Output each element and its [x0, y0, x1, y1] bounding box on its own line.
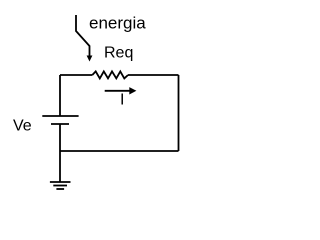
wire left top (corner to battery) [59, 75, 61, 116]
svg-text:energia: energia [89, 14, 146, 33]
wire top-right segment [128, 74, 179, 76]
current arrow I [105, 90, 130, 92]
wire bottom [60, 150, 179, 152]
wire top-left segment [60, 74, 92, 76]
energia input arrow [76, 15, 90, 56]
current arrowhead [129, 87, 136, 94]
battery Ve short plate [51, 123, 69, 125]
ground bar 2 [53, 185, 67, 187]
svg-text:Ve: Ve [13, 118, 32, 135]
svg-text:I: I [120, 92, 124, 109]
svg-text:Req: Req [104, 45, 133, 62]
wire right side [178, 75, 180, 151]
ground bar 1 [50, 181, 71, 183]
energia arrowhead [87, 56, 93, 62]
resistor Req zigzag [92, 71, 128, 78]
battery Ve long plate [42, 115, 78, 117]
wire left bottom (battery to ground) [59, 124, 61, 182]
ground bar 3 [56, 188, 64, 190]
